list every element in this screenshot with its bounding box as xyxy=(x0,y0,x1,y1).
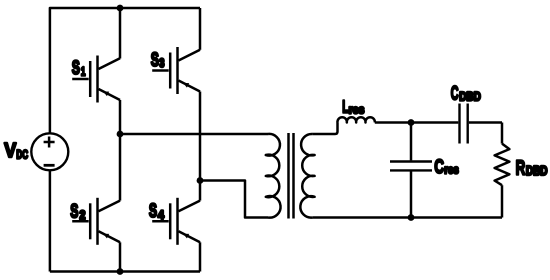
VDC plus sign xyxy=(44,137,55,148)
svg-text:S: S xyxy=(72,58,80,79)
transistor S1 gate lead xyxy=(72,78,89,81)
node: top bus junction to S1 collector xyxy=(117,5,124,12)
transistor S1 emitter diagonal xyxy=(99,89,121,100)
wire: transformer primary bottom lead to node B xyxy=(200,181,268,218)
capacitor C_res bottom plate xyxy=(390,169,432,171)
transistor S1 body bar xyxy=(96,56,99,103)
transistor S2 collector diagonal xyxy=(99,201,121,212)
transistor S4 emitter arrow xyxy=(183,234,189,239)
transistor S2 gate lead xyxy=(72,220,89,223)
transistor S4 gate bar xyxy=(169,203,172,239)
transistor S3 emitter arrow xyxy=(183,83,189,88)
wire: C_DBD right plate to R_DBD branch xyxy=(469,121,502,124)
transistor S1 collector diagonal xyxy=(99,58,121,69)
transistor S4 body bar xyxy=(176,198,179,245)
node A: S1/S2 midpoint xyxy=(117,131,124,138)
svg-text:C: C xyxy=(451,84,459,105)
svg-text:3: 3 xyxy=(159,56,164,70)
transistor S1 emitter arrow xyxy=(103,91,109,96)
svg-text:res: res xyxy=(349,105,365,117)
node D: bottom node of C_res xyxy=(408,214,415,221)
transistor S3 body bar xyxy=(176,47,179,94)
transistor S3 gate bar xyxy=(169,53,172,89)
node B: S3/S4 midpoint xyxy=(197,177,204,184)
svg-text:res: res xyxy=(444,164,458,176)
svg-text:DC: DC xyxy=(16,149,28,161)
node C: resonant tank top node xyxy=(408,119,415,126)
wire: top DC bus rail and left leg down to VDC xyxy=(50,8,200,134)
transistor S3 collector diagonal xyxy=(179,50,201,61)
svg-text:4: 4 xyxy=(158,208,164,222)
capacitor C_res top plate xyxy=(390,160,432,162)
transformer T1 primary winding xyxy=(266,134,281,218)
svg-text:1: 1 xyxy=(81,64,86,78)
svg-text:R: R xyxy=(516,156,526,179)
resistor R_DBD zigzag xyxy=(495,144,510,186)
transformer T1 core line 1 xyxy=(287,133,290,219)
transistor S3 emitter diagonal xyxy=(179,81,201,92)
capacitor C_DBD left plate xyxy=(458,104,460,144)
transformer T1 core line 2 xyxy=(292,133,295,219)
wire: phase node B down to S4 collector xyxy=(199,181,202,201)
wire: C_res bottom plate to node D xyxy=(410,172,413,218)
wire: node A to transformer primary top xyxy=(120,133,268,136)
svg-text:2: 2 xyxy=(80,208,86,222)
source VDC circle xyxy=(31,133,68,170)
svg-text:C: C xyxy=(434,156,444,178)
node: bottom bus junction to S2 emitter xyxy=(117,268,124,275)
svg-text:DBD: DBD xyxy=(459,89,481,103)
svg-text:S: S xyxy=(70,201,78,222)
capacitor C_DBD right plate xyxy=(467,104,469,144)
transistor S4 emitter diagonal xyxy=(179,231,201,242)
transistor S4 collector diagonal xyxy=(179,201,201,212)
transistor S3 gate lead xyxy=(152,69,169,72)
transistor S4 gate lead xyxy=(152,220,169,223)
wire: R_DBD to bottom-right rail xyxy=(501,185,504,217)
wire: S1 collector to top rail xyxy=(119,8,122,59)
wire: Lres to node C and C_DBD left plate xyxy=(375,121,459,124)
wire: left leg from Vdc - terminal to bottom rail xyxy=(49,170,52,271)
svg-text:DBD: DBD xyxy=(526,164,548,178)
svg-text:V: V xyxy=(4,139,16,162)
transistor S1 gate bar xyxy=(89,61,92,97)
transistor S2 gate bar xyxy=(89,203,92,239)
wire: S4 emitter to bottom rail xyxy=(199,242,202,271)
wire: node C down to C_res top plate xyxy=(410,123,413,161)
wire: S3 collector to top rail xyxy=(199,8,202,50)
wire: S1 emitter down to phase node A xyxy=(119,100,122,134)
transistor S2 body bar xyxy=(96,198,99,245)
VDC minus sign xyxy=(44,164,55,167)
wire: S2 emitter to bottom rail xyxy=(119,242,122,271)
wire: phase node A down to S2 collector xyxy=(119,134,122,201)
transistor S2 emitter arrow xyxy=(103,234,109,239)
svg-text:S: S xyxy=(151,50,159,71)
transformer T1 secondary winding xyxy=(300,134,314,218)
wire: bottom DC bus rail xyxy=(50,270,200,273)
wire: bottom-right rail back to secondary bottom xyxy=(312,216,502,219)
wire: secondary top lead to Lres xyxy=(312,123,337,135)
inductor Lres xyxy=(337,117,374,122)
wire: down to R_DBD xyxy=(501,123,504,144)
svg-text:S: S xyxy=(149,201,157,222)
transistor S2 emitter diagonal xyxy=(99,231,121,242)
wire: S3 emitter down to phase node B (crosses node-A wire) xyxy=(199,92,202,181)
